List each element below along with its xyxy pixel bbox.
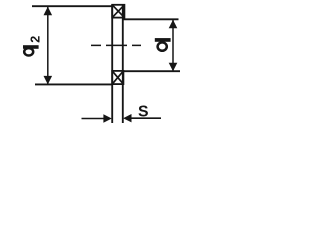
dimension line d2 (left, vertical): [47, 7, 49, 84]
wire: bottom-right extension line (hole bottom edge): [123, 70, 180, 72]
top ring cross-section (crossed square): [112, 5, 124, 18]
dimension line S left segment: [82, 118, 105, 120]
washer body left edge: [111, 5, 113, 124]
dimension line d (right, vertical): [172, 20, 174, 71]
svg-text:2: 2: [29, 36, 43, 43]
wire: bottom-left extension line (outer diameter bottom edge): [35, 83, 113, 85]
arrowhead d2 top (up): [44, 7, 53, 16]
label d (rotated): bowl: [158, 42, 167, 50]
arrowhead d2 bottom (down): [44, 76, 53, 85]
label d (rotated): stem bar: [155, 38, 171, 42]
wire: top-right extension line (hole top edge): [123, 18, 179, 20]
label d2 (rotated): stem bar: [23, 45, 39, 49]
arrowhead d top (up): [169, 20, 178, 29]
svg-text:S: S: [138, 104, 149, 121]
arrowhead S left (points right): [103, 114, 111, 122]
dimension line S right segment: [131, 117, 161, 119]
washer body right edge: [122, 5, 124, 124]
wire: top-left extension line (outer diameter top edge): [32, 5, 113, 7]
arrowhead S right (points left): [123, 114, 131, 122]
label d2 (rotated): bowl: [24, 48, 33, 55]
centerline (dash-dot axis): [91, 44, 141, 46]
bottom ring cross-section (crossed square): [112, 71, 123, 84]
arrowhead d bottom (down): [169, 63, 178, 72]
